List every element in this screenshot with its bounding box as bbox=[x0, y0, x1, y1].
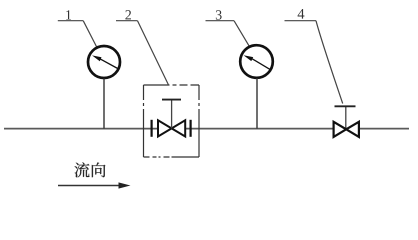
流 bbox=[75, 162, 90, 177]
flow direction arrow bbox=[58, 182, 131, 188]
wire: main pipe line bbox=[4, 128, 409, 130]
valve 4 stem bbox=[345, 106, 347, 129]
wire: gauge 1 stem bbox=[103, 79, 105, 129]
flow direction text 流向 bbox=[75, 162, 106, 177]
label 1 bbox=[58, 10, 83, 20]
valve 2 handle bbox=[162, 99, 181, 101]
向 bbox=[92, 163, 106, 178]
pressure gauge 3 bbox=[240, 45, 273, 78]
leader wire for label 4 bbox=[316, 21, 343, 104]
valve 2 stem bbox=[171, 100, 173, 129]
valve 2 flange left bbox=[151, 120, 153, 137]
valve 2 (gate valve bowtie) bbox=[158, 120, 185, 136]
wire: gauge 3 stem bbox=[256, 78, 258, 129]
valve 4 handle bbox=[335, 105, 356, 107]
leader wire for label 2 bbox=[138, 21, 169, 85]
label 3 bbox=[206, 10, 235, 20]
enclosure box for valve 2 (chain line) bbox=[144, 85, 200, 157]
leader wire for label 3 bbox=[234, 21, 249, 47]
valve 2 flange right bbox=[190, 120, 192, 137]
valve 4 (bowtie) bbox=[334, 122, 359, 137]
label 2 bbox=[116, 10, 138, 21]
label 4 bbox=[285, 9, 317, 21]
leader wire for label 1 bbox=[83, 21, 96, 47]
pressure gauge 1 bbox=[88, 46, 120, 78]
